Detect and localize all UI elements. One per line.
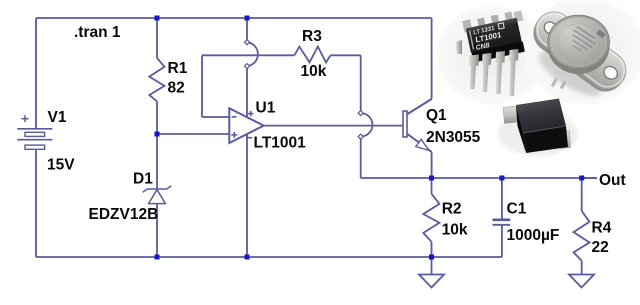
svg-text:LT1001: LT1001 [254, 135, 307, 152]
hop junction marker top of hop 2 [358, 111, 363, 116]
TO-3 can brushing rings [552, 18, 606, 65]
DIP-8 front pin 2 [482, 53, 492, 92]
V1 plus polarity mark [22, 118, 29, 120]
node junction output rail / Q1 emitter / R2 [429, 176, 434, 181]
wire op-amp V- to bottom rail [246, 135, 248, 258]
svg-text:10k: 10k [442, 222, 468, 239]
DIP-8 front pin 3 [496, 51, 506, 94]
node junction R1 / D1 / op-amp input [155, 132, 160, 137]
wire op-amp inverting input feedback (left segment) [202, 116, 229, 118]
DIP-8 front pin 4 [509, 49, 519, 96]
hop junction marker bottom of hop 1 [244, 64, 249, 69]
DIP-8 pin 1 dot [474, 44, 478, 48]
wire R2 node to ground stub [431, 257, 433, 275]
TO-3 mounting hole lower right [602, 64, 620, 82]
wire Out stub [582, 177, 597, 179]
node junction output rail / R4 / Out [579, 176, 584, 181]
wire top rail [36, 17, 432, 19]
wire D1 anode to bottom rail [156, 204, 158, 257]
wire feedback horizontal to R3 [202, 54, 294, 56]
wire R1 top lead [156, 18, 158, 58]
wire hop over op-amp output wire [361, 113, 373, 137]
resistor R1 [149, 58, 164, 101]
SMD diode left terminal [503, 106, 518, 124]
svg-text:2N3055: 2N3055 [426, 129, 481, 146]
svg-text:C1: C1 [507, 201, 527, 218]
wire R2 top lead [431, 178, 433, 194]
voltage source V1 battery symbol [17, 115, 52, 149]
wire R4 bottom lead [581, 261, 583, 275]
TO-3 can top markings [566, 18, 606, 58]
svg-text:1000µF: 1000µF [507, 227, 560, 244]
ground below R2 [419, 275, 444, 288]
op-amp U1 [229, 108, 263, 143]
node junction bottom rail / R2 / ground [429, 255, 434, 260]
wire C1 top lead [501, 178, 503, 219]
svg-text:R4: R4 [592, 220, 612, 237]
Q1 emitter arrow [416, 139, 429, 150]
wire R3 to output node, upper segment of hop [360, 55, 362, 113]
SMD diode body ridge highlight [523, 126, 566, 133]
DIP-8 front pin 1 [469, 55, 479, 90]
op-amp non-inverting input mark [231, 134, 237, 136]
SMD diode body front face [523, 126, 568, 153]
svg-text:U1: U1 [256, 100, 276, 117]
photo DIP-8 IC LT1001 [456, 9, 530, 96]
wire node to op-amp non-inverting input [157, 133, 229, 135]
wire node to D1 cathode [156, 134, 158, 189]
wire hop over feedback wire [247, 42, 258, 66]
node junction output rail / C1 [499, 176, 504, 181]
svg-text:D1: D1 [133, 170, 153, 187]
wire left rail lower (V1 minus lead) [35, 149, 37, 257]
TO-3 can side wall [548, 19, 610, 74]
svg-text:R2: R2 [442, 201, 462, 218]
svg-text:15V: 15V [47, 157, 75, 174]
svg-text:R1: R1 [168, 60, 188, 77]
TO-3 pins below flange [551, 77, 558, 87]
op-amp inverting input mark [232, 116, 237, 118]
wire R3 right lead [331, 54, 361, 56]
TO-3 flange [528, 4, 633, 96]
wire bottom rail [36, 256, 502, 258]
svg-text:82: 82 [168, 80, 185, 97]
wire output rail [361, 177, 597, 179]
zener diode D1 [143, 186, 172, 204]
hop junction marker top of hop 1 [244, 40, 363, 139]
SMD diode right terminal [559, 131, 571, 149]
svg-text:22: 22 [592, 239, 609, 256]
TO-3 can top face [548, 15, 610, 69]
SMD diode shadow [498, 112, 578, 156]
resistor R2 [423, 194, 439, 242]
TO-3 flange lower thickness edge [526, 6, 632, 99]
ground below R4 [569, 275, 594, 288]
svg-text:Out: Out [599, 172, 626, 189]
svg-text:R3: R3 [302, 28, 322, 45]
photo DIP-8 IC LT1001 background [437, 5, 547, 105]
photo TO-3 transistor background [524, 0, 640, 105]
wire Q1 emitter to output rail [431, 152, 433, 178]
DIP-8 pin1 notch bar [469, 31, 474, 50]
SMD diode body top face [516, 99, 566, 134]
DIP-8 body front face [471, 41, 525, 62]
wire R3 branch lower segment to output rail [360, 137, 362, 178]
DIP-8 left back pin [456, 40, 462, 54]
svg-text:.tran 1: .tran 1 [74, 24, 121, 41]
TO-3 shadow [533, 44, 606, 103]
resistor R3 [294, 47, 330, 63]
photo SMD diode package [498, 99, 578, 157]
wire Q1 collector vertical [431, 18, 433, 99]
node junction bottom rail / D1 [155, 255, 160, 260]
svg-text:Q1: Q1 [426, 107, 447, 124]
wire R2 bottom lead [431, 242, 433, 257]
node junction bottom rail / V- [245, 255, 250, 260]
wire V+ supply upper segment [246, 18, 248, 42]
SMD diode body left face [516, 105, 526, 153]
DIP-8 body top face [466, 18, 522, 53]
svg-text:EDZV12B: EDZV12B [89, 206, 159, 223]
DIP-8 back row pins [462, 19, 472, 32]
TO-3 mounting hole upper left [542, 19, 559, 36]
op-amp V+ supply mark [248, 113, 253, 115]
op-amp V- supply mark [248, 137, 253, 139]
resistor R4 [574, 211, 590, 261]
wire R1 bottom lead to node [156, 101, 158, 134]
node junction top rail / V+ [245, 16, 250, 21]
photo TO-3 transistor 2N3055 [526, 4, 634, 103]
wire left rail upper (V1 plus lead) [35, 18, 37, 129]
hop junction marker bottom of hop 2 [358, 134, 363, 139]
wire op-amp output to Q1 base [264, 125, 403, 127]
wire feedback vertical segment [201, 55, 203, 117]
transistor Q1 [403, 99, 432, 152]
svg-text:V1: V1 [48, 109, 67, 126]
svg-text:10k: 10k [301, 63, 327, 80]
capacitor C1 [493, 220, 511, 225]
wire V+ supply to op-amp top [246, 66, 248, 117]
wire R4 top lead [581, 178, 583, 211]
node junction top rail / R1 [155, 16, 160, 21]
wire C1 bottom lead [501, 226, 503, 258]
